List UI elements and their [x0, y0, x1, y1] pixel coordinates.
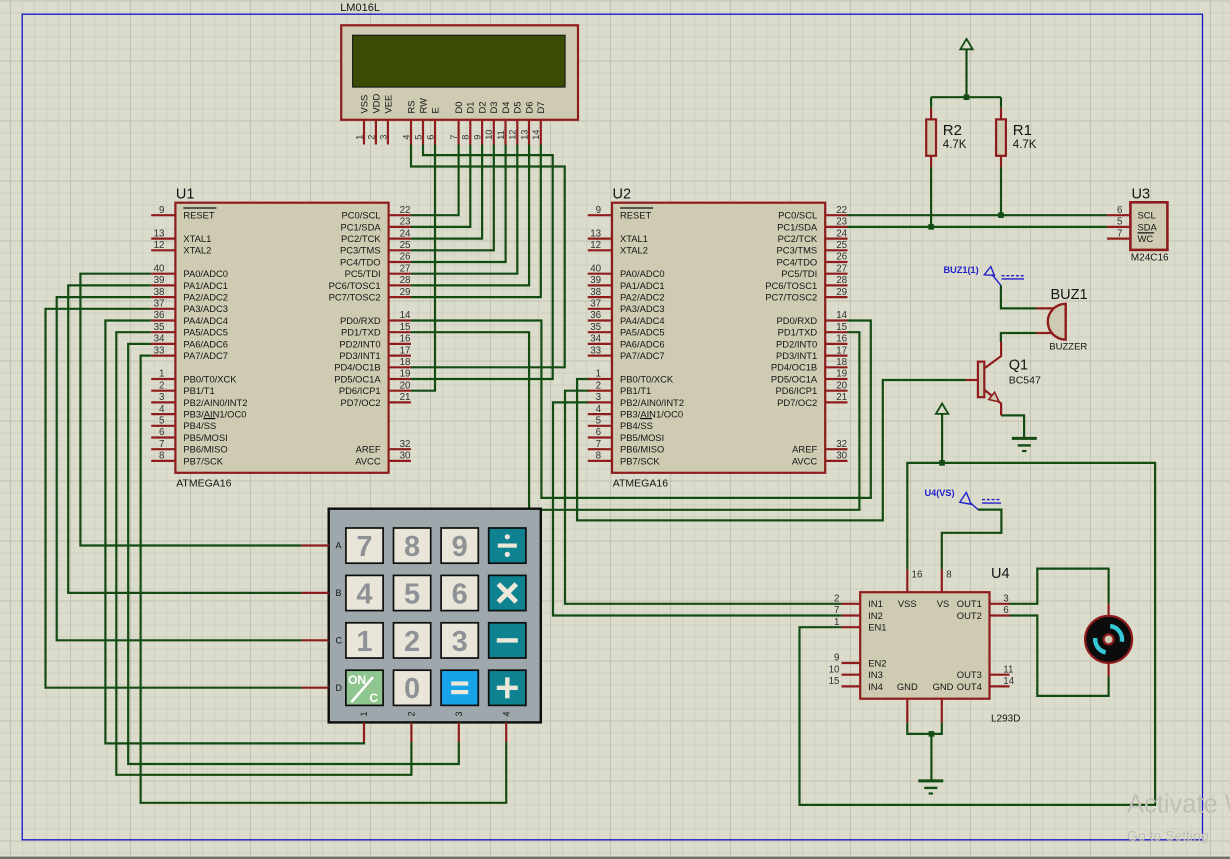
- svg-text:PC4/TDO: PC4/TDO: [340, 256, 381, 267]
- svg-text:ON: ON: [348, 673, 366, 687]
- svg-text:3: 3: [596, 392, 602, 403]
- svg-text:39: 39: [154, 275, 165, 286]
- svg-text:9: 9: [596, 205, 601, 216]
- svg-text:PC1/SDA: PC1/SDA: [340, 221, 381, 232]
- svg-text:RESET: RESET: [620, 210, 652, 221]
- svg-text:36: 36: [590, 310, 601, 321]
- svg-text:23: 23: [836, 217, 847, 228]
- wire LCD D7 to U1 PC7: [411, 145, 541, 298]
- svg-text:7: 7: [834, 605, 839, 616]
- svg-text:PB1/T1: PB1/T1: [183, 385, 214, 396]
- svg-text:2: 2: [407, 711, 417, 716]
- svg-text:PD0/RXD: PD0/RXD: [777, 315, 818, 326]
- svg-text:U1: U1: [176, 187, 195, 203]
- svg-text:Activate W: Activate W: [1127, 791, 1230, 819]
- svg-text:PA1/ADC1: PA1/ADC1: [620, 280, 665, 291]
- svg-text:PA0/ADC0: PA0/ADC0: [620, 268, 665, 279]
- svg-text:8: 8: [461, 135, 471, 140]
- svg-text:PD6/ICP1: PD6/ICP1: [339, 385, 381, 396]
- svg-text:PC2/TCK: PC2/TCK: [778, 233, 818, 244]
- svg-text:5: 5: [413, 135, 423, 140]
- svg-text:PD4/OC1B: PD4/OC1B: [334, 362, 380, 373]
- svg-text:33: 33: [154, 345, 165, 356]
- svg-text:40: 40: [590, 263, 601, 274]
- svg-text:PB3/AIN1/OC0: PB3/AIN1/OC0: [183, 409, 246, 420]
- wire U2 PB0 to Q1 base: [577, 379, 965, 520]
- svg-text:34: 34: [154, 334, 165, 345]
- svg-text:BUZ1: BUZ1: [1051, 287, 1088, 303]
- svg-text:2: 2: [834, 594, 839, 605]
- svg-text:RW: RW: [417, 98, 428, 114]
- svg-text:1: 1: [596, 369, 601, 380]
- wire R2 bottom to SDA: [930, 167, 932, 227]
- wire R1 top pin: [1000, 97, 1002, 108]
- svg-text:PB5/MOSI: PB5/MOSI: [620, 432, 664, 443]
- svg-text:21: 21: [400, 392, 411, 403]
- svg-text:14: 14: [1003, 676, 1014, 687]
- junction VCC rail: [939, 460, 945, 466]
- svg-text:VSS: VSS: [898, 598, 917, 609]
- svg-text:28: 28: [836, 275, 847, 286]
- svg-text:WC: WC: [1138, 233, 1154, 244]
- svg-text:4.7K: 4.7K: [943, 139, 967, 151]
- svg-text:4: 4: [159, 404, 165, 415]
- svg-text:PA2/ADC2: PA2/ADC2: [620, 292, 665, 303]
- svg-text:PA5/ADC5: PA5/ADC5: [183, 327, 228, 338]
- svg-text:1: 1: [359, 711, 369, 716]
- svg-text:4: 4: [401, 135, 411, 140]
- svg-text:PC4/TDO: PC4/TDO: [777, 256, 818, 267]
- wire LCD D6 to U1 PC6: [411, 145, 529, 286]
- svg-text:SCL: SCL: [1138, 210, 1156, 221]
- svg-text:D7: D7: [535, 102, 546, 114]
- svg-text:12: 12: [590, 240, 601, 251]
- svg-text:3: 3: [1003, 594, 1009, 605]
- svg-text:LM016L: LM016L: [340, 2, 380, 14]
- IC U1 ATMEGA16: [151, 187, 411, 490]
- svg-text:4: 4: [596, 404, 602, 415]
- wire LCD D2 to U1 PC2: [411, 145, 482, 239]
- svg-text:PD2/INT0: PD2/INT0: [776, 338, 817, 349]
- svg-text:17: 17: [836, 345, 847, 356]
- svg-text:AVCC: AVCC: [355, 455, 381, 466]
- wire VCC rail / U4 EN1 loop: [800, 463, 1156, 805]
- junction U4 ground: [929, 731, 935, 737]
- svg-text:ATMEGA16: ATMEGA16: [613, 478, 668, 490]
- buzzer BUZ1: [1036, 287, 1087, 353]
- svg-text:D4: D4: [500, 102, 511, 114]
- svg-text:BUZ1(1): BUZ1(1): [944, 265, 979, 275]
- svg-text:14: 14: [836, 310, 847, 321]
- svg-text:PD5/OC1A: PD5/OC1A: [771, 373, 818, 384]
- wire LCD D0 to U1 PC0: [411, 145, 459, 216]
- svg-text:D6: D6: [523, 102, 534, 114]
- svg-text:0: 0: [404, 673, 420, 705]
- svg-text:L293D: L293D: [991, 714, 1020, 725]
- svg-text:6: 6: [596, 427, 602, 438]
- bottom window edge: [0, 857, 1230, 859]
- svg-text:3: 3: [452, 626, 468, 658]
- svg-text:B: B: [336, 588, 342, 598]
- svg-text:U4: U4: [991, 566, 1010, 582]
- junction R1R2 top bar: [964, 94, 970, 100]
- wire buzzer pin2 to Q1 collector: [1001, 333, 1037, 342]
- svg-text:OUT1: OUT1: [957, 598, 982, 609]
- wire U1 PA5 to keypad col 2: [116, 332, 411, 775]
- IC U3 M24C16: [1107, 186, 1169, 263]
- svg-text:29: 29: [400, 287, 411, 298]
- wire U4 OUT2 to motor -: [1010, 616, 1109, 696]
- svg-text:37: 37: [154, 299, 165, 310]
- svg-text:RS: RS: [405, 100, 416, 113]
- svg-text:2: 2: [159, 380, 164, 391]
- svg-text:PA0/ADC0: PA0/ADC0: [183, 268, 228, 279]
- svg-text:C: C: [336, 636, 343, 646]
- svg-text:PD3/INT1: PD3/INT1: [339, 350, 380, 361]
- svg-text:8: 8: [404, 531, 420, 563]
- svg-text:IN4: IN4: [868, 681, 883, 692]
- svg-text:1: 1: [159, 369, 164, 380]
- svg-text:OUT4: OUT4: [957, 681, 982, 692]
- svg-text:4.7K: 4.7K: [1013, 139, 1037, 151]
- svg-text:R2: R2: [943, 122, 962, 139]
- voltage probe U4(VS): [925, 488, 1002, 510]
- svg-text:7: 7: [159, 439, 164, 450]
- svg-text:9: 9: [473, 135, 483, 140]
- wire LCD E (pin6) to U1 PD6: [411, 145, 435, 391]
- svg-text:32: 32: [400, 439, 411, 450]
- svg-text:15: 15: [829, 676, 840, 687]
- svg-text:PB0/T0/XCK: PB0/T0/XCK: [183, 373, 237, 384]
- svg-text:8: 8: [946, 570, 952, 581]
- svg-text:SDA: SDA: [1138, 221, 1158, 232]
- svg-text:RESET: RESET: [183, 210, 215, 221]
- svg-text:OUT3: OUT3: [957, 669, 982, 680]
- wire U2 PB2 to U4 IN2: [553, 402, 842, 615]
- wire LCD RS (pin4) to U1 PD4: [411, 145, 565, 368]
- svg-text:29: 29: [836, 287, 847, 298]
- svg-text:14: 14: [400, 310, 411, 321]
- svg-text:16: 16: [400, 334, 411, 345]
- svg-text:26: 26: [400, 252, 411, 263]
- IC U4 L293D: [829, 566, 1021, 725]
- wire BUZ1 probe to buzzer pin1: [1001, 285, 1037, 308]
- wire U1 PA0 to keypad row A: [80, 274, 301, 546]
- svg-text:39: 39: [590, 275, 601, 286]
- resistor R1 4.7K: [996, 108, 1037, 167]
- svg-text:PB5/MOSI: PB5/MOSI: [183, 432, 227, 443]
- wire LCD D4 to U1 PC4: [411, 145, 506, 263]
- svg-text:PB4/SS: PB4/SS: [183, 420, 216, 431]
- svg-text:PD1/TXD: PD1/TXD: [778, 327, 818, 338]
- svg-text:D3: D3: [488, 102, 499, 114]
- svg-text:8: 8: [159, 451, 165, 462]
- svg-text:OUT2: OUT2: [957, 610, 982, 621]
- svg-text:M24C16: M24C16: [1131, 252, 1169, 263]
- wire U4 OUT1 to motor +: [1010, 569, 1109, 604]
- svg-text:EN1: EN1: [868, 622, 886, 633]
- svg-text:32: 32: [836, 439, 847, 450]
- svg-text:36: 36: [154, 310, 165, 321]
- wire U1 PD0 to U2 PD0: [411, 321, 871, 498]
- svg-text:16: 16: [836, 334, 847, 345]
- svg-text:22: 22: [400, 205, 411, 216]
- svg-text:11: 11: [1003, 664, 1013, 675]
- svg-text:PB0/T0/XCK: PB0/T0/XCK: [620, 373, 674, 384]
- svg-text:8: 8: [596, 451, 602, 462]
- svg-text:PB1/T1: PB1/T1: [620, 385, 651, 396]
- svg-text:1: 1: [354, 135, 364, 140]
- keypad (calculator): [301, 509, 540, 742]
- svg-text:9: 9: [452, 531, 468, 563]
- svg-text:13: 13: [519, 130, 529, 140]
- svg-text:27: 27: [400, 263, 411, 274]
- svg-text:30: 30: [400, 451, 411, 462]
- svg-text:IN1: IN1: [868, 598, 883, 609]
- svg-text:38: 38: [154, 287, 165, 298]
- wire U4 GND pins join: [907, 723, 942, 734]
- svg-text:12: 12: [508, 130, 518, 140]
- svg-text:20: 20: [400, 380, 411, 391]
- svg-text:PB2/AIN0/INT2: PB2/AIN0/INT2: [620, 397, 684, 408]
- svg-text:D2: D2: [477, 102, 488, 114]
- junction R2/SDA: [928, 224, 934, 230]
- wire R1 bottom to SCL: [1000, 167, 1002, 215]
- svg-text:19: 19: [400, 369, 411, 380]
- svg-text:PA4/ADC4: PA4/ADC4: [183, 315, 228, 326]
- wire U1 PA3 to keypad row D: [46, 309, 302, 688]
- svg-text:XTAL1: XTAL1: [620, 233, 648, 244]
- svg-text:3: 3: [159, 392, 165, 403]
- svg-text:PC7/TOSC2: PC7/TOSC2: [765, 292, 817, 303]
- svg-text:37: 37: [590, 299, 601, 310]
- svg-text:VEE: VEE: [382, 95, 393, 114]
- svg-text:PB6/MISO: PB6/MISO: [183, 444, 227, 455]
- svg-text:1: 1: [356, 626, 372, 658]
- voltage probe BUZ1(1): [944, 265, 1025, 286]
- svg-text:D5: D5: [512, 102, 523, 114]
- wire LCD D3 to U1 PC3: [411, 145, 494, 251]
- svg-text:18: 18: [400, 357, 411, 368]
- svg-text:15: 15: [836, 322, 847, 333]
- svg-text:25: 25: [836, 240, 847, 251]
- wire R2 top pin: [930, 97, 932, 108]
- svg-text:34: 34: [590, 334, 601, 345]
- wire U1 PA6 to keypad col 3: [128, 344, 459, 764]
- wire SDA net U2 PC1 to U3: [848, 226, 1108, 228]
- svg-text:40: 40: [154, 263, 165, 274]
- svg-text:IN2: IN2: [868, 610, 883, 621]
- svg-text:PD5/OC1A: PD5/OC1A: [334, 373, 381, 384]
- svg-text:XTAL2: XTAL2: [620, 245, 648, 256]
- wire U4 GND to ground: [930, 734, 932, 781]
- svg-text:21: 21: [836, 392, 847, 403]
- svg-text:18: 18: [836, 357, 847, 368]
- svg-text:2: 2: [596, 380, 601, 391]
- svg-text:24: 24: [400, 228, 411, 239]
- wire LCD D5 to U1 PC5: [411, 145, 517, 274]
- svg-text:VS: VS: [937, 598, 950, 609]
- svg-text:23: 23: [400, 217, 411, 228]
- svg-text:A: A: [336, 541, 342, 551]
- ground (Q1 emitter): [1012, 438, 1037, 451]
- ground (U4): [918, 781, 943, 794]
- svg-text:6: 6: [159, 427, 165, 438]
- svg-text:AVCC: AVCC: [792, 455, 818, 466]
- svg-text:PD4/OC1B: PD4/OC1B: [771, 362, 817, 373]
- svg-text:PC0/SCL: PC0/SCL: [342, 210, 381, 221]
- IC U2 ATMEGA16: [588, 187, 848, 490]
- svg-text:ATMEGA16: ATMEGA16: [176, 478, 231, 490]
- svg-text:24: 24: [836, 228, 847, 239]
- wire power arrow 1 stem: [965, 49, 967, 97]
- wire R1R2 top bar: [931, 96, 1001, 98]
- svg-text:PD6/ICP1: PD6/ICP1: [776, 385, 818, 396]
- svg-text:GND: GND: [897, 681, 918, 692]
- svg-text:IN3: IN3: [868, 669, 883, 680]
- svg-text:5: 5: [1117, 217, 1123, 228]
- svg-text:PC7/TOSC2: PC7/TOSC2: [329, 292, 381, 303]
- LCD LM016L: [341, 25, 578, 144]
- svg-text:PA4/ADC4: PA4/ADC4: [620, 315, 665, 326]
- svg-text:4: 4: [501, 711, 511, 716]
- svg-text:15: 15: [400, 322, 411, 333]
- svg-text:5: 5: [596, 416, 602, 427]
- svg-text:10: 10: [484, 130, 494, 140]
- svg-text:16: 16: [912, 570, 923, 581]
- svg-text:PD3/INT1: PD3/INT1: [776, 350, 817, 361]
- svg-text:7: 7: [596, 439, 601, 450]
- svg-text:22: 22: [836, 205, 847, 216]
- svg-text:7: 7: [356, 531, 372, 563]
- svg-text:2: 2: [366, 135, 376, 140]
- svg-text:25: 25: [400, 240, 411, 251]
- svg-text:38: 38: [590, 287, 601, 298]
- svg-text:PB6/MISO: PB6/MISO: [620, 444, 664, 455]
- svg-text:VSS: VSS: [358, 95, 369, 114]
- svg-text:PB7/SCK: PB7/SCK: [620, 455, 660, 466]
- svg-text:6: 6: [1117, 205, 1123, 216]
- svg-text:PB2/AIN0/INT2: PB2/AIN0/INT2: [183, 397, 247, 408]
- svg-text:11: 11: [496, 130, 506, 140]
- wire U1 PD1 to U2 PD1: [411, 332, 860, 510]
- svg-text:PA5/ADC5: PA5/ADC5: [620, 327, 665, 338]
- svg-text:5: 5: [404, 578, 420, 610]
- svg-text:7: 7: [1117, 228, 1122, 239]
- svg-text:BUZZER: BUZZER: [1049, 341, 1087, 352]
- svg-text:PC2/TCK: PC2/TCK: [341, 233, 381, 244]
- svg-text:AREF: AREF: [356, 444, 381, 455]
- svg-text:28: 28: [400, 275, 411, 286]
- svg-text:7: 7: [449, 135, 459, 140]
- svg-text:26: 26: [836, 252, 847, 263]
- svg-text:PC3/TMS: PC3/TMS: [777, 245, 818, 256]
- wire power arrow to VCC rail: [941, 414, 943, 463]
- svg-text:PC3/TMS: PC3/TMS: [340, 245, 381, 256]
- svg-text:2: 2: [404, 626, 420, 658]
- svg-text:PA7/ADC7: PA7/ADC7: [183, 350, 228, 361]
- svg-text:VDD: VDD: [370, 93, 381, 113]
- svg-text:PA6/ADC6: PA6/ADC6: [183, 338, 228, 349]
- svg-text:EN2: EN2: [868, 657, 886, 668]
- svg-text:20: 20: [836, 380, 847, 391]
- svg-text:PC6/TOSC1: PC6/TOSC1: [329, 280, 381, 291]
- svg-text:6: 6: [425, 135, 435, 140]
- svg-text:U4(VS): U4(VS): [925, 488, 955, 498]
- svg-text:13: 13: [154, 228, 165, 239]
- svg-text:GND: GND: [933, 681, 954, 692]
- svg-text:12: 12: [154, 240, 165, 251]
- svg-text:19: 19: [836, 369, 847, 380]
- svg-text:3: 3: [454, 711, 464, 716]
- svg-text:Go to Setting: Go to Setting: [1127, 828, 1209, 844]
- junction R1/SCL: [998, 212, 1004, 218]
- resistor R2 4.7K: [926, 108, 967, 167]
- wire U1 PA2 to keypad row C: [57, 297, 302, 640]
- wire U1 PA4 to keypad col 1: [105, 321, 364, 744]
- svg-text:PD7/OC2: PD7/OC2: [340, 397, 380, 408]
- DC motor: [1085, 604, 1132, 677]
- wire U4 VS to probe: [942, 510, 1002, 570]
- svg-text:PC5/TDI: PC5/TDI: [345, 268, 381, 279]
- svg-text:5: 5: [159, 416, 165, 427]
- svg-text:D0: D0: [453, 102, 464, 114]
- svg-text:PC0/SCL: PC0/SCL: [778, 210, 817, 221]
- svg-text:35: 35: [154, 322, 165, 333]
- wire U1 PA7 to keypad col 4: [141, 356, 507, 803]
- svg-text:PD0/RXD: PD0/RXD: [340, 315, 381, 326]
- wire LCD RW (pin5) to U1 PD5: [411, 145, 553, 380]
- svg-text:6: 6: [1003, 605, 1009, 616]
- svg-text:D1: D1: [465, 102, 476, 114]
- svg-text:PD7/OC2: PD7/OC2: [777, 397, 817, 408]
- wire LCD D1 to U1 PC1: [411, 145, 470, 227]
- svg-text:PA7/ADC7: PA7/ADC7: [620, 350, 665, 361]
- svg-text:1: 1: [834, 617, 839, 628]
- svg-text:C: C: [369, 691, 378, 705]
- svg-text:E: E: [429, 107, 440, 113]
- svg-text:PB7/SCK: PB7/SCK: [183, 455, 223, 466]
- wire SCL net U2 PC0 to U3: [848, 214, 1108, 216]
- svg-text:10: 10: [829, 664, 840, 675]
- svg-text:30: 30: [836, 451, 847, 462]
- svg-text:PA3/ADC3: PA3/ADC3: [620, 303, 665, 314]
- svg-text:27: 27: [836, 263, 847, 274]
- svg-text:33: 33: [590, 345, 601, 356]
- svg-text:U3: U3: [1132, 186, 1151, 202]
- svg-text:PD1/TXD: PD1/TXD: [341, 327, 381, 338]
- svg-text:PD2/INT0: PD2/INT0: [339, 338, 380, 349]
- svg-text:17: 17: [400, 345, 411, 356]
- power symbol (top, R1R2): [960, 39, 972, 49]
- svg-text:6: 6: [452, 578, 468, 610]
- svg-text:PC6/TOSC1: PC6/TOSC1: [765, 280, 817, 291]
- svg-text:PB3/AIN1/OC0: PB3/AIN1/OC0: [620, 409, 683, 420]
- svg-text:9: 9: [834, 653, 839, 664]
- transistor Q1 BC547: [966, 342, 1041, 415]
- svg-text:Q1: Q1: [1009, 357, 1028, 373]
- svg-text:PA1/ADC1: PA1/ADC1: [183, 280, 228, 291]
- svg-text:XTAL1: XTAL1: [183, 233, 211, 244]
- svg-text:PA3/ADC3: PA3/ADC3: [183, 303, 228, 314]
- wire Q1 emitter to ground: [1001, 415, 1024, 438]
- svg-text:U2: U2: [613, 187, 632, 203]
- svg-text:14: 14: [531, 130, 541, 140]
- svg-text:PA2/ADC2: PA2/ADC2: [183, 292, 228, 303]
- svg-text:D: D: [336, 683, 343, 693]
- svg-text:4: 4: [356, 578, 372, 610]
- svg-text:PB4/SS: PB4/SS: [620, 420, 653, 431]
